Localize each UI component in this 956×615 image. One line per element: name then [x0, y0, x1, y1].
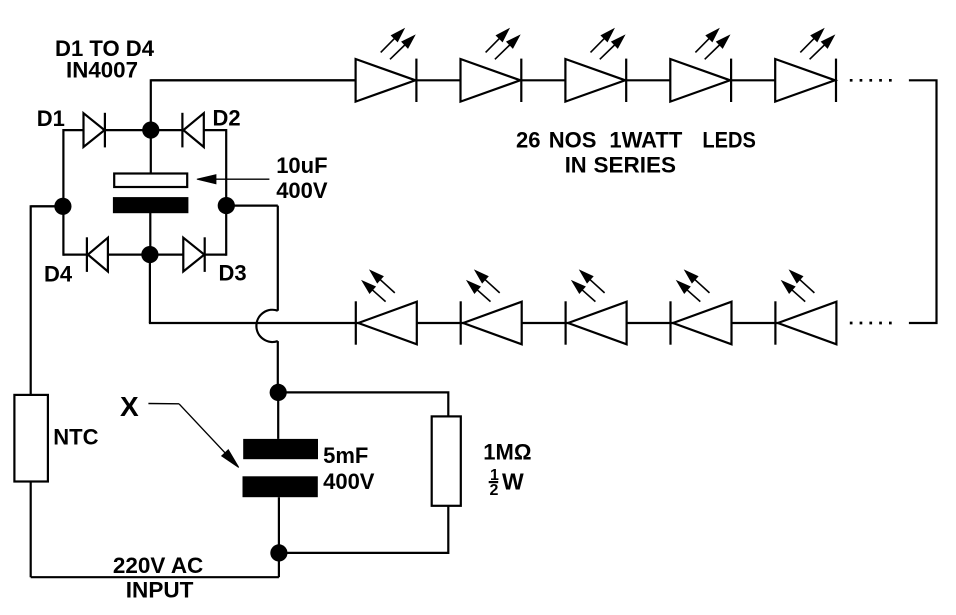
svg-text:IN4007: IN4007 [66, 58, 138, 83]
svg-text:INPUT: INPUT [126, 578, 194, 603]
svg-text:10uF: 10uF [276, 153, 327, 178]
svg-text:2: 2 [490, 482, 499, 499]
svg-text:1MΩ: 1MΩ [483, 440, 531, 465]
svg-text:D1: D1 [37, 106, 65, 131]
svg-text:NTC: NTC [53, 425, 98, 450]
svg-text:26: 26 [516, 128, 540, 153]
svg-text:400V: 400V [323, 469, 375, 494]
svg-text:D4: D4 [44, 262, 73, 287]
svg-text:X: X [120, 391, 139, 422]
svg-text:400V: 400V [276, 178, 328, 203]
svg-text:220V AC: 220V AC [113, 553, 204, 578]
svg-text:D2: D2 [213, 105, 241, 130]
svg-text:NOS: NOS [549, 128, 597, 153]
svg-text:D3: D3 [219, 260, 247, 285]
svg-text:1WATT: 1WATT [609, 128, 682, 153]
svg-text:IN: IN [565, 153, 587, 178]
svg-text:5mF: 5mF [323, 443, 368, 468]
svg-text:LEDS: LEDS [702, 128, 756, 153]
svg-text:W: W [502, 468, 524, 494]
svg-text:SERIES: SERIES [594, 153, 677, 178]
